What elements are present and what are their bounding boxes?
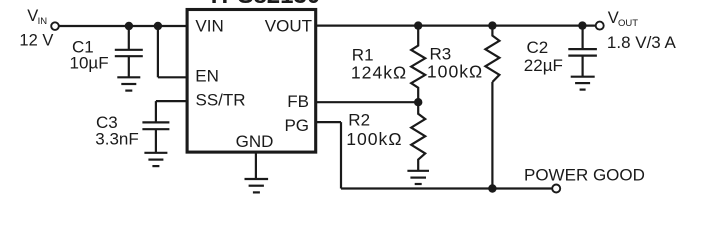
svg-text:IN: IN	[38, 16, 48, 27]
svg-text:GND: GND	[236, 132, 274, 151]
wire C2 top lead	[581, 26, 583, 49]
svg-text:TPS82130: TPS82130	[207, 0, 320, 9]
terminal POWER GOOD port circle	[552, 185, 560, 193]
svg-text:SS/TR: SS/TR	[196, 91, 246, 110]
wire EN tap vertical	[157, 26, 159, 77]
svg-text:3.3nF: 3.3nF	[95, 130, 138, 149]
junction dot R3 bottom on PG rail	[488, 184, 496, 192]
svg-text:10µF: 10µF	[70, 54, 109, 73]
wire PG vertical drop	[340, 122, 342, 188]
svg-text:VIN: VIN	[195, 16, 223, 35]
svg-text:124kΩ: 124kΩ	[351, 63, 407, 83]
wire FB pin to divider node	[316, 101, 418, 103]
junction dot C2 tap	[578, 21, 586, 29]
svg-text:12 V: 12 V	[19, 31, 53, 49]
resistor R1 zigzag	[411, 26, 425, 103]
junction dot R1 top	[414, 21, 422, 29]
capacitor C3 plates	[142, 122, 169, 129]
wire PG pin horizontal	[316, 121, 341, 123]
ground symbol below C3	[144, 153, 167, 166]
svg-text:EN: EN	[195, 67, 219, 86]
svg-text:V: V	[27, 7, 38, 25]
ground symbol below R2	[407, 171, 429, 184]
junction dot FB node	[414, 98, 422, 106]
terminal VOUT port circle	[596, 22, 604, 30]
svg-text:R2: R2	[348, 110, 370, 129]
svg-text:VOUT: VOUT	[265, 17, 312, 36]
svg-text:PG: PG	[284, 116, 309, 135]
resistor R2 zigzag	[411, 102, 425, 171]
svg-text:POWER GOOD: POWER GOOD	[524, 165, 645, 184]
svg-text:OUT: OUT	[618, 18, 638, 29]
svg-text:1.8 V/3 A: 1.8 V/3 A	[607, 33, 677, 52]
ground symbol below C1	[117, 77, 140, 90]
junction dot C1 tap	[125, 22, 133, 30]
svg-text:FB: FB	[287, 92, 309, 111]
junction dot R3 top	[488, 21, 496, 29]
junction dot EN tap	[154, 22, 162, 30]
wire C1 bottom lead	[128, 56, 130, 77]
svg-text:22µF: 22µF	[524, 56, 563, 75]
terminal VIN input port circle	[51, 22, 59, 30]
wire SS/TR vertical to C3	[155, 101, 157, 122]
ground symbol below IC GND	[245, 179, 269, 192]
wire VIN terminal to IC VIN pin	[59, 25, 187, 27]
wire C2 bottom lead	[581, 56, 583, 77]
wire GND pin stub	[255, 152, 257, 180]
capacitor C2 plates	[568, 49, 597, 56]
wire EN horizontal into EN pin	[158, 76, 187, 78]
resistor R3 zigzag	[485, 26, 499, 82]
svg-text:100kΩ: 100kΩ	[427, 62, 483, 82]
capacitor C1 plates	[115, 50, 143, 56]
wire C3 bottom lead	[155, 129, 157, 153]
wire C1 top lead	[128, 26, 130, 50]
svg-text:100kΩ: 100kΩ	[346, 129, 402, 149]
wire SS/TR pin horizontal	[156, 100, 187, 102]
ground symbol below C2	[571, 77, 595, 90]
svg-text:C2: C2	[527, 38, 549, 57]
wire POWER GOOD rail	[341, 187, 552, 189]
IC U1 TPS82130 body rectangle	[187, 10, 316, 153]
wire VOUT rail	[316, 25, 596, 27]
wire R3 bottom to PG rail	[491, 82, 493, 189]
